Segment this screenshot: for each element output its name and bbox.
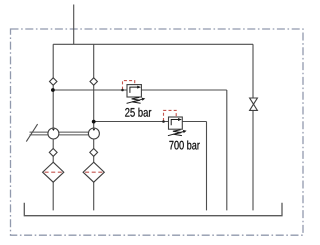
node: junction left column / low pressure line (51, 88, 55, 92)
wire: top manifold line (53, 43, 253, 45)
hand pump P1 (left piston) (48, 128, 59, 139)
check valve CV1 (left discharge, diamond) (50, 78, 57, 85)
node: junction right pump / high pressure line (92, 120, 96, 124)
label: 25 bar (125, 108, 151, 117)
filter F1 (left suction strainer) (43, 162, 64, 182)
relief valve V2 flow arrow (171, 118, 182, 125)
wire: P1 suction drop (52, 139, 54, 210)
wire: pressure supply line leaving enclosure (73, 5, 75, 45)
relief valve V1 body (25 bar) (127, 85, 141, 97)
enclosure boundary (power unit frame, dash-dot) (11, 29, 304, 235)
pilot line of V2 (dashed red) (164, 110, 177, 121)
wire: high pressure line (700 bar circuit) (94, 122, 207, 211)
hand pump P2 (right piston) (88, 128, 99, 139)
wire: low pressure line (25 bar circuit) (53, 90, 227, 210)
check valve CV4 (right suction, diamond) (90, 149, 98, 157)
node: pilot tap of V1 (121, 89, 124, 92)
lever (hand pump handle) (26, 124, 37, 142)
reservoir (tank) (24, 203, 283, 216)
label: 700 bar (169, 141, 199, 150)
relief valve V2 body (700 bar) (169, 117, 183, 129)
wire: right branch to shut-off valve (252, 44, 254, 210)
wire: right column riser (93, 44, 95, 128)
spring of V1 (adjustable) (127, 97, 146, 103)
pilot line of V1 (dashed red) (123, 81, 135, 90)
mechanical link (double line) P1 to P2 (59, 132, 89, 135)
filter F2 (right suction strainer) (83, 162, 104, 182)
wire: left column riser (52, 44, 54, 128)
shut-off valve V3 (release valve) (250, 98, 258, 110)
check valve CV3 (left suction, diamond) (49, 149, 57, 157)
relief valve V1 flow arrow (130, 86, 141, 93)
spring of V2 (adjustable) (168, 130, 187, 136)
wire: P2 suction drop (93, 139, 95, 210)
mechanical link (double line) lever to P1 (30, 132, 48, 135)
check valve CV2 (right discharge, diamond) (90, 78, 97, 85)
node: pilot tap of V2 (162, 120, 165, 123)
